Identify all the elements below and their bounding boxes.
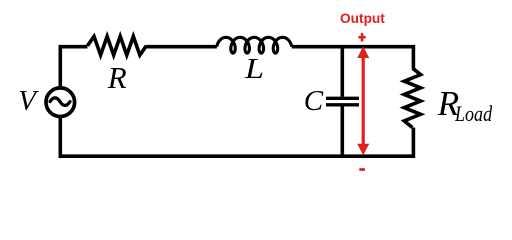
output arrow head up — [357, 46, 369, 58]
wire: capacitor branch top — [340, 47, 344, 97]
label RLoad Load subscript — [455, 103, 492, 125]
wire: load bottom, bottom rail, to source bottom — [60, 117, 413, 157]
wire: source top to resistor — [60, 47, 87, 88]
voltage source sine wave — [50, 98, 70, 106]
output arrow head down — [357, 144, 369, 155]
inductor L — [217, 37, 292, 53]
label L — [245, 55, 264, 84]
label C — [304, 87, 323, 116]
capacitor C top plate — [326, 97, 359, 100]
capacitor C bottom plate — [326, 103, 359, 106]
minus sign — [359, 168, 365, 171]
label RLoad R — [438, 86, 460, 121]
plus sign — [358, 33, 366, 42]
label Output — [340, 12, 385, 26]
label R — [108, 62, 127, 93]
wire: inductor to top-right corner down to load — [292, 47, 414, 68]
wire: resistor to inductor — [146, 45, 216, 49]
wire: capacitor branch bottom — [340, 107, 344, 157]
voltage source V circle — [46, 88, 75, 117]
resistor R — [88, 36, 147, 55]
resistor RLoad — [404, 68, 420, 128]
output arrow shaft (red) — [362, 56, 365, 148]
label V — [18, 87, 36, 116]
